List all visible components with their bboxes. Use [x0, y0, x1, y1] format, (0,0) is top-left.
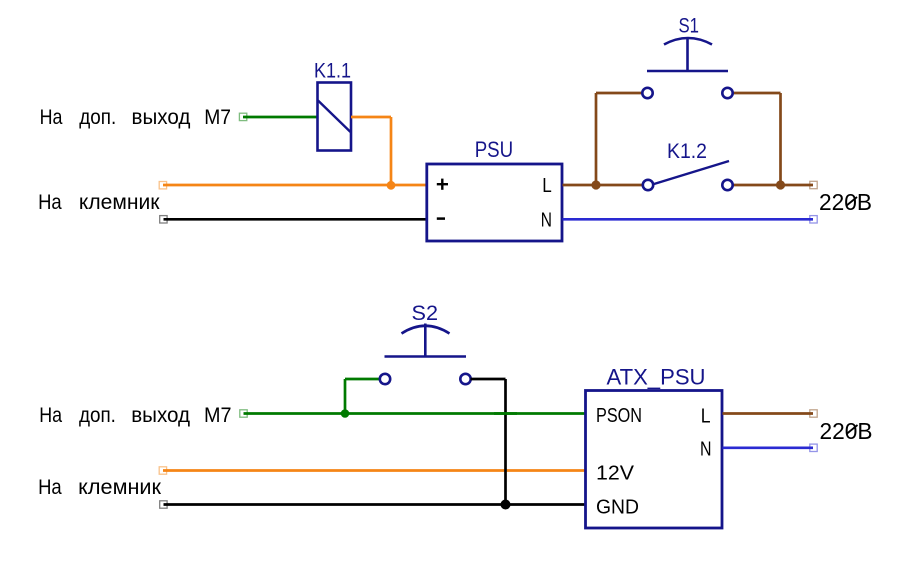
switch S2 stem [424, 324, 427, 357]
wire orange to ATX 12V [163, 469, 585, 472]
wire brown right S1 stub [733, 92, 781, 95]
wire black to ATX GND [164, 503, 586, 506]
terminal (green, bottom M7 wire end) [240, 410, 247, 417]
switch S1 bar [647, 70, 728, 73]
junction dot brown left [591, 180, 600, 189]
wire black from S2 right contact (horizontal) [471, 378, 506, 381]
switch S1 contact circle right [722, 88, 732, 98]
switch S1 actuator arc [664, 38, 712, 45]
terminal (green, top M7 wire end) [239, 113, 246, 120]
wire black vertical down to GND net [504, 379, 507, 505]
terminal (brown, bottom 220V L) [810, 410, 817, 417]
relay contact K1.2 circle right [722, 180, 732, 190]
wire black клемник to PSU - [164, 218, 427, 221]
PSU box [427, 164, 562, 241]
wire brown ATX L to 220V [723, 412, 814, 415]
wire brown L net (PSU to K1.2 left contact) [563, 184, 643, 187]
relay coil K1.1 box [318, 83, 352, 151]
pin label + [437, 179, 448, 190]
svg-text:PSU: PSU [475, 137, 514, 162]
slash of zero (top 220В) [846, 197, 857, 206]
slash of zero (bottom 220В) [847, 425, 858, 434]
wire brown vertical left up to S1 [595, 93, 598, 185]
wire blue ATX N to 220V [723, 446, 814, 449]
switch S2 contact circle right [460, 374, 470, 384]
junction dot black [501, 500, 511, 510]
switch S2 actuator arc [402, 326, 450, 334]
svg-text:Наклемник: Наклемник [38, 190, 160, 214]
junction dot brown right [776, 180, 785, 189]
switch S1 contact circle left [642, 88, 652, 98]
terminal (blue, bottom 220V N) [810, 444, 817, 451]
switch S2 bar [385, 355, 467, 358]
wire orange from K1.1 to junction (horizontal) [351, 116, 391, 119]
switch S1 stem [686, 38, 689, 71]
svg-text:L: L [701, 406, 711, 428]
svg-text:ATX_PSU: ATX_PSU [607, 364, 706, 389]
wire brown left S1 stub [596, 92, 642, 95]
svg-text:GND: GND [596, 497, 639, 519]
wire green M7 to ATX PSON [244, 412, 586, 415]
wire green vertical to S2 [344, 379, 347, 414]
svg-text:L: L [542, 175, 552, 197]
junction dot green [341, 409, 350, 418]
svg-text:K1.2: K1.2 [667, 139, 707, 163]
relay contact K1.2 circle left [643, 180, 653, 190]
svg-text:PSON: PSON [596, 405, 642, 427]
wire green stub to S2 left contact [345, 378, 380, 381]
wire green M7 to relay coil [243, 116, 317, 119]
svg-text:N: N [700, 439, 712, 461]
ATX_PSU box [586, 391, 723, 529]
terminal (brown, 220V L end) [810, 181, 817, 188]
svg-text:S1: S1 [679, 14, 700, 38]
wire green (over crossing) [494, 412, 517, 415]
relay contact K1.2 blade [654, 161, 729, 184]
terminal (orange, bottom клемник end) [159, 467, 166, 474]
svg-text:K1.1: K1.1 [314, 58, 351, 82]
svg-text:220В: 220В [819, 189, 872, 215]
pin label - [437, 217, 445, 220]
svg-text:12V: 12V [596, 463, 635, 485]
svg-text:Наклемник: Наклемник [38, 475, 161, 499]
wire orange from K1.1 to junction (vertical) [390, 117, 393, 185]
junction dot orange [387, 181, 396, 190]
terminal (black, bottom клемник end) [160, 501, 167, 508]
terminal (blue, 220V N end) [810, 216, 817, 223]
svg-text:220В: 220В [820, 418, 873, 444]
svg-text:N: N [541, 210, 552, 232]
terminal (orange, клемник wire end) [159, 182, 166, 189]
wire blue N net [563, 218, 814, 221]
wire brown vertical right down from S1 [779, 93, 782, 185]
wire orange клемник to PSU + [163, 184, 426, 187]
terminal (black, клемник wire end) [160, 216, 167, 223]
relay coil K1.1 diagonal [318, 101, 351, 133]
svg-text:S2: S2 [412, 301, 439, 325]
switch S2 contact circle left [380, 374, 390, 384]
wire brown L net (K1.2 right contact to terminal) [733, 184, 813, 187]
